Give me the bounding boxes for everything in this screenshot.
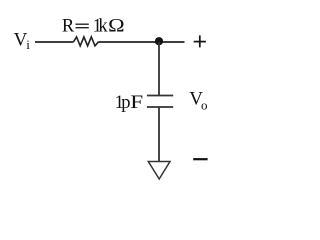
node junction dot bbox=[155, 37, 163, 45]
svg-text:k: k bbox=[98, 16, 108, 36]
node Vo (output label) bbox=[189, 88, 207, 112]
resistor R value label R = 1kΩ bbox=[62, 16, 125, 36]
svg-text:F: F bbox=[130, 91, 143, 112]
svg-text:Ω: Ω bbox=[108, 16, 125, 36]
capacitor value label 1pF bbox=[115, 91, 144, 113]
wire resistor to output + terminal (through node) bbox=[99, 41, 185, 43]
node Vi (input label) bbox=[14, 29, 31, 52]
svg-text:o: o bbox=[201, 97, 208, 112]
ground bbox=[148, 162, 170, 180]
svg-text:i: i bbox=[26, 37, 30, 52]
svg-text:p: p bbox=[121, 93, 130, 113]
resistor R zigzag bbox=[74, 37, 99, 46]
wire capacitor bottom plate to ground bbox=[158, 107, 160, 162]
svg-text:R: R bbox=[62, 16, 75, 36]
wire input Vi to resistor bbox=[35, 41, 74, 43]
output terminal − sign bbox=[193, 158, 207, 160]
wire node down to capacitor top plate bbox=[158, 42, 160, 96]
capacitor C 1pF plates bbox=[147, 96, 173, 108]
output terminal + sign bbox=[194, 35, 206, 47]
